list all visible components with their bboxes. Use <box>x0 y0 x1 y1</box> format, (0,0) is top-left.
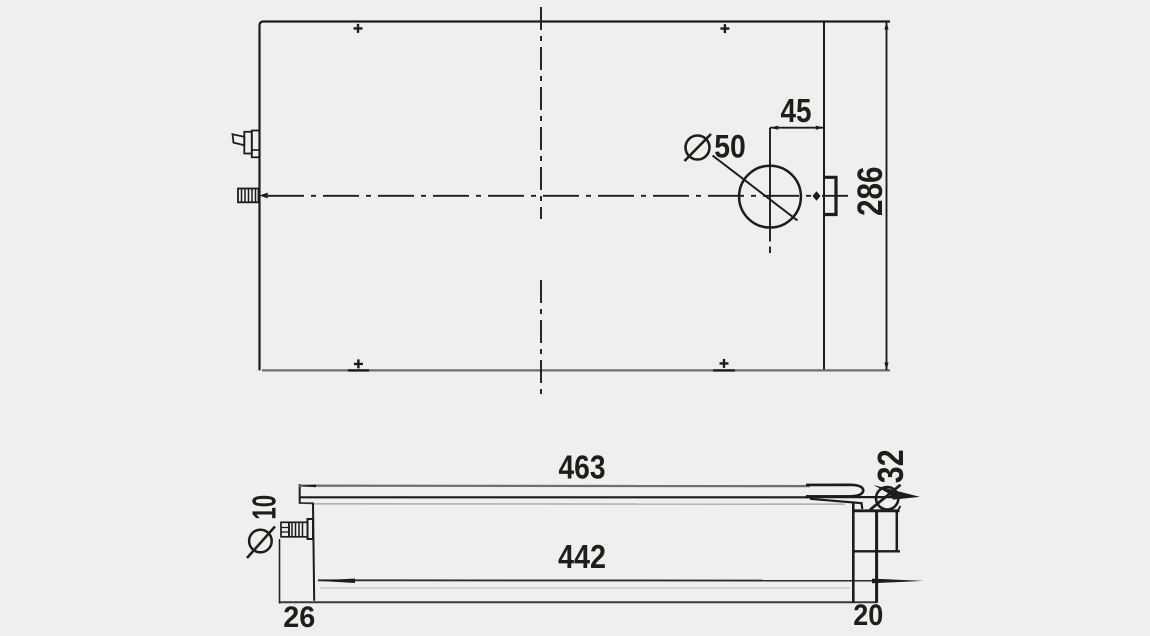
svg-text:442: 442 <box>558 538 606 575</box>
drain body bottom <box>853 550 900 552</box>
svg-text:286: 286 <box>851 167 890 217</box>
svg-text:32: 32 <box>870 449 911 483</box>
dimension 286 line <box>886 22 888 370</box>
svg-text:50: 50 <box>714 129 746 165</box>
drain hole vertical centerline <box>769 128 771 242</box>
centerline right diamond <box>813 191 821 200</box>
label 286 (rotated) <box>851 167 890 217</box>
horizontal centerline (top view) <box>268 195 818 197</box>
bottom edge dark segment left <box>348 369 369 371</box>
dimension 26 extension line <box>279 539 281 604</box>
vertical centerline (top view) <box>540 7 542 219</box>
clip bracket on right edge <box>825 177 837 214</box>
ledge right end tick <box>898 506 901 511</box>
fixing cross bottom-left <box>354 359 363 368</box>
top view outline: basin rim rectangle <box>260 22 891 371</box>
drain hole circle <box>739 166 801 228</box>
fixing cross bottom-right <box>720 359 729 368</box>
rim top line / dimension 463 line <box>299 485 810 488</box>
bottom edge dark segment right <box>713 369 735 371</box>
svg-text:10: 10 <box>246 495 283 520</box>
rim bottom lip (left) <box>299 502 314 504</box>
hose barb fitting (top view, left edge) <box>238 189 259 203</box>
label diameter 10 (rotated) <box>249 530 272 553</box>
faint line under 442 <box>320 587 850 589</box>
long right arrow (rim underside) <box>858 496 900 498</box>
rim left end cap <box>299 484 301 504</box>
svg-text:20: 20 <box>853 599 883 632</box>
svg-text:463: 463 <box>559 449 606 486</box>
dimension 442 left arrow <box>317 579 356 584</box>
basin inner lip faint line <box>313 503 845 505</box>
drain body right wall <box>896 511 899 552</box>
centerline left arrow <box>259 193 268 199</box>
basin left wall <box>313 504 314 601</box>
basin inner bottom / dimension 442 line <box>318 579 890 581</box>
fixing cross top-left <box>354 24 363 33</box>
dimension 442 right arrow <box>872 579 924 584</box>
drain tail left wall <box>852 503 855 603</box>
overflow clip fitting (top view, left edge upper) <box>233 131 260 158</box>
rim underside right slope <box>810 499 862 509</box>
fixing cross top-right <box>720 24 729 33</box>
dimension 463 left arrow <box>299 485 317 488</box>
basin outer bottom line / dimension 26 line <box>280 601 878 603</box>
rim underside strong line / dimension line <box>300 496 810 498</box>
drain flange ledge <box>853 509 899 512</box>
rim right end outline <box>806 485 863 497</box>
svg-text:45: 45 <box>781 92 812 129</box>
drain tail right wall <box>875 511 878 603</box>
hose barb fitting (side view) <box>281 519 313 539</box>
label diameter 50 <box>686 136 710 160</box>
leader line for diameter 50 <box>713 156 798 221</box>
label diameter 32 (rotated) <box>876 487 898 509</box>
dimension 45 line <box>770 127 824 129</box>
svg-text:26: 26 <box>283 601 315 634</box>
